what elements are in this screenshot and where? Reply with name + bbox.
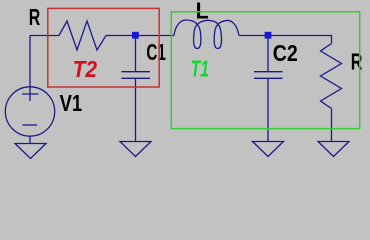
wire from top-left corner down to V1 plus-stem: [29, 36, 31, 102]
ground below C2: [253, 142, 284, 157]
wire top horizontal to resistor R: [30, 35, 59, 37]
ground below C1: [120, 142, 151, 157]
ground below R load: [318, 142, 349, 157]
node 2 junction square: [265, 32, 272, 39]
wire inductor to node 2 and on to right, corner down to R load: [239, 36, 332, 44]
inductor L (three humps with two loops): [174, 20, 239, 49]
svg-text:T1: T1: [191, 55, 210, 81]
svg-text:V1: V1: [60, 90, 83, 116]
resistor R (series, horizontal zigzag): [59, 21, 106, 50]
node 1 junction square: [132, 32, 139, 39]
wire node 1 down to C1: [135, 38, 137, 72]
green selection box T1: [171, 12, 359, 129]
wire V1 bottom to ground: [29, 136, 31, 144]
capacitor C2: [254, 72, 283, 79]
voltage source V1 (circle): [5, 87, 54, 136]
red selection box T2: [48, 8, 159, 87]
V1 plus sign bar: [22, 93, 39, 95]
wire node 2 down to C2: [267, 38, 269, 72]
svg-text:R: R: [29, 4, 41, 30]
svg-text:C2: C2: [273, 40, 298, 66]
wire resistor to node 1 and on to inductor: [106, 35, 174, 37]
svg-text:T2: T2: [73, 56, 98, 82]
ground below V1: [15, 144, 46, 159]
resistor R (load, vertical zigzag): [321, 44, 342, 109]
svg-text:R: R: [351, 49, 363, 75]
wire C2 down to ground: [267, 78, 269, 141]
svg-text:C1: C1: [146, 39, 166, 65]
wire C1 down to ground: [135, 78, 137, 141]
V1 minus sign bar: [23, 124, 38, 126]
wire R load to ground: [331, 109, 333, 142]
capacitor C1: [122, 72, 151, 79]
